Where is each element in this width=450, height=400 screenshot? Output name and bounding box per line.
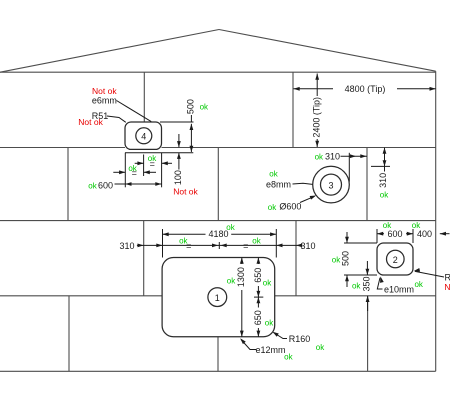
dim 350 (opening 2): [362, 261, 372, 311]
svg-text:ok: ok: [148, 154, 157, 163]
course line 1 left of opening 4: [0, 147, 125, 149]
leader R160: [274, 333, 288, 339]
ext from circle 3 top: [371, 165, 390, 167]
svg-text:310: 310: [378, 173, 388, 188]
svg-text:ok: ok: [352, 281, 361, 290]
equal dim lower row: [113, 168, 156, 178]
svg-text:Not ok: Not ok: [173, 186, 198, 196]
opening 4 outline: [125, 122, 162, 149]
joint row3 left: [143, 221, 145, 296]
dim 600 under opening 4: [98, 180, 162, 190]
dim 500 (opening 4): [185, 99, 195, 152]
course line 1 right of opening 4: [162, 147, 436, 149]
ext line opening1 left: [162, 229, 164, 258]
opening 3 outer circle: [313, 166, 350, 203]
svg-text:400: 400: [417, 229, 432, 239]
svg-text:ok: ok: [380, 190, 389, 199]
ext opening2 top left line: [344, 242, 377, 244]
dim 310 (circle 3 horizontal): [325, 152, 367, 162]
ext line opening4 top right: [160, 121, 194, 123]
svg-text:ok: ok: [316, 343, 325, 352]
svg-text:ok: ok: [332, 255, 341, 264]
svg-text:650: 650: [253, 268, 263, 283]
ext line opening1 right: [275, 229, 277, 258]
svg-text:ok: ok: [179, 237, 188, 246]
joint row4 left: [68, 296, 70, 372]
opening 4 number circle: [136, 128, 152, 144]
opening 1 outline: [162, 258, 275, 337]
joint row2 middle: [217, 148, 219, 221]
leader R51: [107, 116, 126, 122]
svg-text:ok: ok: [265, 318, 274, 327]
svg-text:ok: ok: [226, 223, 235, 232]
equal row opening 1: [163, 241, 277, 251]
svg-text:350: 350: [362, 276, 372, 291]
svg-text:e10mm: e10mm: [384, 284, 414, 294]
leader e6mm: [117, 101, 152, 122]
svg-text:e6mm: e6mm: [92, 95, 117, 105]
svg-text:650: 650: [253, 310, 263, 325]
ext from circle 3 right: [348, 153, 350, 182]
svg-text:3: 3: [328, 180, 333, 190]
svg-text:ok: ok: [200, 102, 209, 111]
svg-text:ok: ok: [268, 203, 277, 212]
svg-text:310: 310: [300, 241, 315, 251]
svg-text:600: 600: [387, 229, 402, 239]
svg-text:2: 2: [393, 255, 398, 265]
svg-text:ok: ok: [88, 181, 97, 190]
center tick under opening 4: [143, 155, 145, 177]
svg-text:R51: R51: [445, 272, 450, 282]
joint row3 right: [295, 221, 297, 296]
dim 400 (opening 2): [417, 229, 450, 239]
svg-text:ok: ok: [414, 280, 423, 289]
wall top edge: [0, 71, 436, 73]
svg-text:4800 (Tip): 4800 (Tip): [345, 84, 386, 94]
svg-text:1300: 1300: [236, 267, 246, 287]
dim 600 (opening 2): [377, 229, 413, 239]
joint row2 left: [67, 148, 69, 221]
svg-text:ok: ok: [227, 276, 236, 285]
dim 650 650: [253, 258, 263, 337]
svg-text:310: 310: [325, 152, 340, 162]
leader e12mm: [241, 340, 256, 350]
course line 2: [0, 220, 436, 222]
joint row4 middle: [217, 337, 219, 372]
wall right edge: [435, 71, 437, 371]
dim 4180: [163, 229, 277, 239]
opening 3 number circle: [321, 174, 342, 195]
svg-text:Not ok: Not ok: [444, 282, 450, 292]
svg-text:4: 4: [141, 132, 146, 142]
svg-text:ok: ok: [284, 353, 293, 362]
dim 1300: [236, 258, 246, 337]
leader e10mm: [377, 278, 382, 289]
svg-text:310: 310: [119, 241, 134, 251]
svg-text:100: 100: [173, 170, 183, 185]
ext opening2 left top: [376, 229, 378, 243]
roof left slope: [0, 30, 219, 73]
wall bottom edge: [0, 370, 436, 372]
joint row1 right: [292, 72, 294, 147]
opening 1 number circle: [208, 288, 227, 307]
svg-text:Ø600: Ø600: [279, 202, 301, 212]
svg-text:ok: ok: [315, 152, 324, 161]
opening 2 outline: [377, 243, 413, 275]
leader e8mm: [293, 183, 313, 184]
ext opening2 right top: [412, 229, 414, 243]
svg-text:e8mm: e8mm: [266, 180, 291, 190]
dim 500 (opening 2): [340, 232, 350, 287]
dim 2400 (Tip): [311, 74, 321, 148]
svg-text:ok: ok: [263, 278, 272, 287]
ext opening2 bottom left line: [344, 274, 377, 276]
svg-text:e12mm: e12mm: [255, 345, 285, 355]
course line 3 left of opening 1: [0, 295, 162, 297]
dim 310 right of opening 1: [276, 241, 315, 251]
svg-text:600: 600: [98, 180, 113, 190]
equal dim upper row: [135, 159, 172, 169]
svg-text:ok: ok: [252, 237, 261, 246]
opening 2 number circle: [387, 250, 405, 268]
svg-text:500: 500: [340, 251, 350, 266]
svg-text:=: =: [243, 241, 248, 251]
dim 310 left of opening 1: [119, 241, 162, 251]
svg-text:Not ok: Not ok: [78, 117, 103, 127]
opening4 bottom ext left: [124, 153, 126, 188]
opening4 bottom ext line: [125, 152, 193, 154]
svg-text:500: 500: [185, 99, 195, 114]
svg-text:1: 1: [215, 293, 220, 303]
joint row1 above opening 4: [143, 72, 145, 122]
leader R (right edge): [415, 271, 444, 277]
roof right slope: [219, 30, 436, 72]
svg-text:ok: ok: [269, 170, 278, 179]
leader diameter 600: [300, 196, 315, 202]
dim 4800 (Tip): [294, 84, 436, 94]
svg-text:ok: ok: [128, 164, 137, 173]
svg-text:R160: R160: [289, 334, 311, 344]
svg-text:2400 (Tip): 2400 (Tip): [311, 97, 321, 138]
opening4 bottom ext right: [161, 153, 163, 188]
joint row4 right: [367, 296, 369, 372]
course line 3 right of opening 1: [275, 295, 436, 297]
dim 100 arrows: [173, 134, 183, 185]
joint row2 right: [366, 148, 368, 221]
dim 310 vertical (circle 3): [378, 148, 388, 188]
